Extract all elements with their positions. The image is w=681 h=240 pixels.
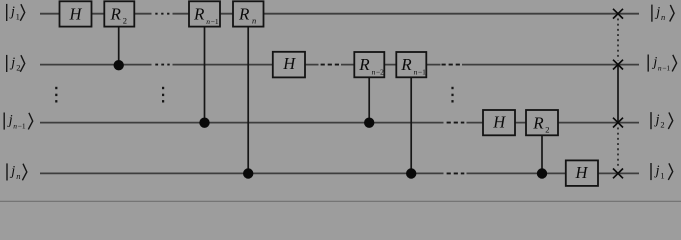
- svg-text:−1: −1: [18, 121, 26, 130]
- svg-text:R: R: [400, 55, 412, 74]
- svg-text:H: H: [575, 163, 589, 182]
- svg-text:−2: −2: [376, 67, 384, 76]
- svg-text:R: R: [238, 4, 250, 23]
- svg-text:H: H: [282, 54, 296, 73]
- svg-text:n: n: [16, 171, 20, 181]
- svg-text:R: R: [110, 4, 122, 23]
- svg-text:2: 2: [660, 120, 664, 130]
- svg-text:H: H: [492, 112, 506, 131]
- svg-text:n: n: [661, 12, 665, 22]
- svg-text:−1: −1: [662, 63, 670, 72]
- svg-text:R: R: [358, 55, 370, 74]
- svg-text:2: 2: [545, 125, 549, 135]
- svg-text:H: H: [69, 5, 83, 24]
- svg-text:R: R: [532, 114, 544, 133]
- svg-text:1: 1: [16, 12, 20, 22]
- svg-text:n: n: [252, 16, 256, 26]
- svg-text:R: R: [193, 4, 205, 23]
- svg-text:2: 2: [123, 16, 127, 26]
- svg-text:1: 1: [660, 171, 664, 181]
- svg-text:−1: −1: [418, 67, 426, 76]
- svg-text:2: 2: [16, 63, 20, 73]
- svg-text:−1: −1: [211, 17, 219, 26]
